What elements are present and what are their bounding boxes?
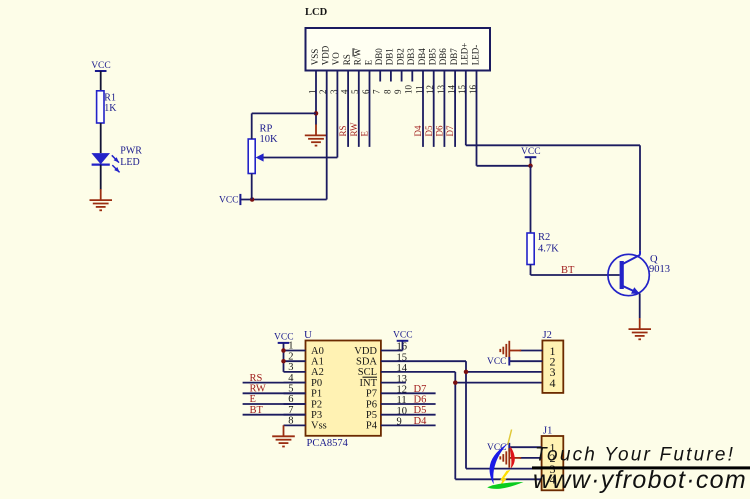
svg-text:DB3: DB3: [406, 48, 416, 66]
svg-text:E: E: [250, 394, 256, 405]
svg-text:P7: P7: [366, 389, 377, 400]
svg-text:R/W: R/W: [353, 48, 363, 66]
svg-text:7: 7: [372, 89, 382, 94]
svg-text:LCD: LCD: [305, 7, 328, 18]
svg-text:4.7K: 4.7K: [538, 244, 559, 255]
svg-text:Vss: Vss: [311, 421, 327, 432]
svg-text:DB0: DB0: [374, 48, 384, 66]
svg-text:DB5: DB5: [428, 48, 438, 66]
svg-text:3: 3: [288, 362, 293, 373]
svg-text:10K: 10K: [260, 134, 279, 145]
svg-text:E: E: [363, 59, 373, 65]
svg-text:R2: R2: [538, 232, 550, 243]
svg-text:DB6: DB6: [438, 48, 448, 66]
svg-text:VDD: VDD: [354, 346, 377, 357]
svg-text:DB2: DB2: [395, 48, 405, 65]
svg-text:8: 8: [382, 89, 392, 94]
svg-text:SDA: SDA: [356, 357, 377, 368]
svg-text:RS: RS: [342, 54, 352, 65]
svg-text:D4: D4: [413, 125, 423, 136]
svg-text:D5: D5: [414, 405, 427, 416]
svg-text:VDD: VDD: [321, 45, 331, 65]
svg-text:P5: P5: [366, 410, 377, 421]
svg-text:D6: D6: [414, 395, 427, 406]
svg-text:A1: A1: [311, 357, 324, 368]
svg-text:D4: D4: [414, 416, 428, 427]
svg-text:VCC: VCC: [274, 333, 294, 343]
svg-text:A2: A2: [311, 367, 324, 378]
svg-text:P2: P2: [311, 399, 322, 410]
svg-text:9: 9: [393, 89, 403, 94]
svg-text:PWR: PWR: [120, 145, 142, 156]
svg-text:P6: P6: [366, 399, 377, 410]
svg-text:VCC: VCC: [219, 196, 239, 206]
svg-text:SCL: SCL: [358, 367, 377, 378]
svg-text:RW: RW: [250, 384, 266, 395]
svg-text:BT: BT: [250, 405, 264, 416]
svg-text:BT: BT: [561, 265, 575, 276]
svg-text:10: 10: [404, 85, 414, 95]
svg-text:DB1: DB1: [385, 48, 395, 65]
svg-text:RS: RS: [338, 125, 348, 136]
svg-text:A0: A0: [311, 346, 324, 357]
svg-text:VCC: VCC: [91, 61, 111, 71]
svg-text:VO: VO: [331, 52, 341, 65]
svg-text:www·yfrobot·com: www·yfrobot·com: [533, 466, 747, 494]
svg-text:9013: 9013: [649, 264, 670, 275]
svg-text:8: 8: [288, 416, 293, 427]
svg-text:D6: D6: [435, 125, 445, 136]
svg-text:P3: P3: [311, 410, 322, 421]
svg-text:VCC: VCC: [487, 357, 507, 367]
svg-text:LED-: LED-: [470, 45, 480, 66]
svg-text:J2: J2: [543, 330, 552, 341]
svg-text:1K: 1K: [104, 103, 117, 114]
svg-text:E: E: [360, 131, 370, 137]
svg-text:LED: LED: [120, 157, 139, 168]
svg-text:LED+: LED+: [460, 43, 470, 66]
svg-text:RP: RP: [260, 124, 273, 135]
svg-text:DB4: DB4: [417, 48, 427, 66]
svg-text:P4: P4: [366, 421, 378, 432]
svg-text:4: 4: [550, 376, 556, 390]
svg-text:U: U: [304, 329, 312, 341]
svg-text:2: 2: [288, 351, 293, 362]
svg-text:RS: RS: [250, 373, 263, 384]
svg-text:PCA8574: PCA8574: [307, 438, 349, 449]
svg-text:VCC: VCC: [521, 147, 541, 157]
svg-text:RW: RW: [349, 122, 359, 137]
svg-text:P0: P0: [311, 378, 322, 389]
svg-text:Touch Your Future!: Touch Your Future!: [535, 445, 735, 466]
svg-text:P1: P1: [311, 389, 322, 400]
svg-text:D7: D7: [414, 384, 427, 395]
svg-text:VSS: VSS: [310, 49, 320, 66]
svg-text:INT: INT: [360, 378, 378, 389]
svg-text:D7: D7: [445, 125, 455, 136]
svg-text:D5: D5: [424, 125, 434, 136]
svg-text:J1: J1: [543, 426, 552, 437]
svg-text:VCC: VCC: [393, 331, 413, 341]
svg-text:DB7: DB7: [449, 48, 459, 66]
